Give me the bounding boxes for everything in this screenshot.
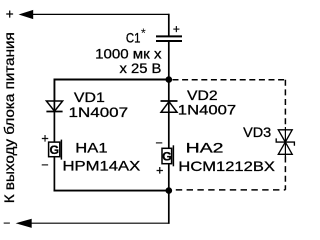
wire top rail to C1 top lead bbox=[32, 14, 170, 37]
svg-text:+: + bbox=[173, 22, 180, 36]
svg-text:VD3: VD3 bbox=[243, 125, 271, 140]
wire VD1 through HA1 vertical bbox=[53, 80, 55, 143]
label K vyhodu bloka pitaniya (rotated) bbox=[2, 32, 17, 203]
label VD2 value 1N4007 bbox=[178, 103, 236, 118]
svg-text:+: + bbox=[41, 131, 48, 145]
asterisk marker on C1 bbox=[141, 27, 146, 41]
node A junction dot bbox=[166, 76, 173, 83]
label HA2 value HCM1212BX bbox=[178, 159, 275, 174]
piezo plate line HA2 bbox=[172, 145, 174, 166]
label C1 value line 2 bbox=[120, 61, 162, 76]
polarity - of HA1 bbox=[41, 158, 48, 172]
label VD3 bbox=[243, 125, 271, 140]
plus label top rail bbox=[6, 6, 14, 21]
polarity + of C1 bbox=[173, 22, 180, 36]
label C1 value line 1 bbox=[95, 46, 162, 61]
arrow bottom rail bbox=[16, 219, 32, 228]
svg-text:+: + bbox=[156, 163, 163, 177]
buzzer HA2 box bbox=[162, 148, 172, 163]
diode VD1 bbox=[46, 101, 62, 112]
diode VD2 bbox=[161, 101, 178, 112]
polarity - of HA2 bbox=[155, 136, 162, 150]
label VD1 value 1N4007 bbox=[69, 105, 129, 120]
wire VD2 through HA2 vertical bbox=[168, 80, 170, 149]
wire HA2 bottom bbox=[168, 164, 170, 191]
minus label bottom rail bbox=[3, 216, 10, 230]
svg-text:HA1: HA1 bbox=[75, 140, 107, 155]
svg-text:G: G bbox=[162, 149, 172, 163]
svg-text:C1: C1 bbox=[126, 31, 141, 46]
arrow top rail bbox=[19, 10, 34, 19]
node B junction dot bbox=[166, 187, 173, 194]
svg-text:HCM1212BX: HCM1212BX bbox=[178, 159, 275, 174]
wire branch VD1 top bbox=[54, 79, 169, 101]
dashed VD3 upper lead bbox=[284, 80, 286, 127]
capacitor C1 bbox=[156, 36, 182, 41]
label HA1 bbox=[75, 140, 107, 155]
dashed VD3 lower lead bbox=[284, 157, 286, 190]
svg-text:*: * bbox=[141, 27, 146, 41]
polarity + of HA2 bbox=[156, 163, 163, 177]
svg-text:−: − bbox=[41, 158, 48, 172]
buzzer HA1 box bbox=[49, 142, 60, 157]
svg-text:1N4007: 1N4007 bbox=[69, 105, 129, 120]
polarity + of HA1 bbox=[41, 131, 48, 145]
wire C1 bottom lead bbox=[168, 41, 170, 80]
label HA1 value HPM14AX bbox=[63, 159, 141, 174]
svg-text:1N4007: 1N4007 bbox=[178, 103, 236, 118]
svg-text:G: G bbox=[50, 143, 60, 157]
label C1 bbox=[126, 31, 141, 46]
svg-text:VD1: VD1 bbox=[74, 90, 105, 105]
dashed link node A to VD3 bbox=[173, 79, 286, 81]
piezo plate line HA1 bbox=[60, 140, 62, 160]
svg-text:HPM14AX: HPM14AX bbox=[63, 159, 141, 174]
label VD2 bbox=[187, 88, 218, 103]
label HA2 bbox=[186, 141, 224, 156]
svg-text:х 25 В: х 25 В bbox=[120, 61, 162, 76]
suppressor VD3 bbox=[276, 127, 294, 157]
svg-text:К выходу блока питания: К выходу блока питания bbox=[2, 32, 17, 203]
dashed link VD3 to node B bbox=[176, 189, 286, 191]
wire HA1 bottom to node B bbox=[54, 157, 169, 192]
svg-text:+: + bbox=[6, 6, 14, 21]
wire node B to bottom rail bbox=[31, 191, 170, 224]
svg-text:VD2: VD2 bbox=[187, 88, 218, 103]
svg-text:−: − bbox=[3, 216, 10, 230]
svg-text:1000 мк х: 1000 мк х bbox=[95, 46, 162, 61]
svg-text:HA2: HA2 bbox=[186, 141, 224, 156]
label VD1 bbox=[74, 90, 105, 105]
